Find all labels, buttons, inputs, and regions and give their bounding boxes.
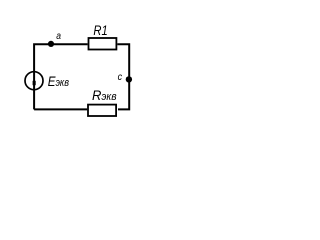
svg-text:c: c [118, 72, 123, 84]
svg-text:Eэкв: Eэкв [48, 73, 69, 89]
svg-text:Rэкв: Rэкв [92, 87, 117, 103]
svg-text:R1: R1 [93, 23, 107, 38]
svg-text:a: a [56, 31, 61, 42]
